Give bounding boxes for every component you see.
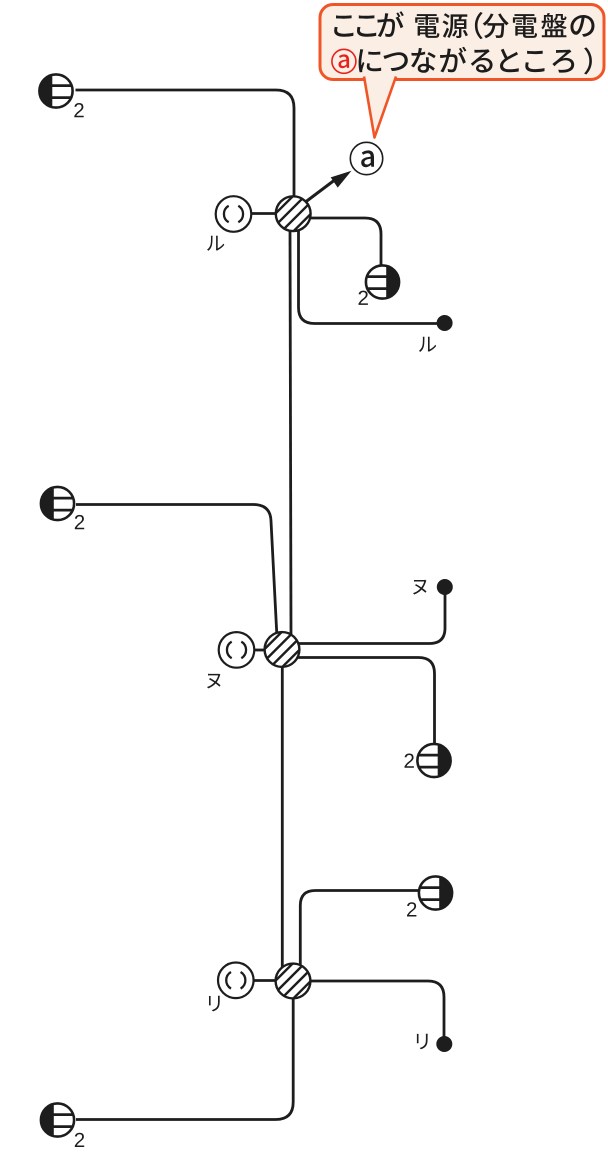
callout text line 1: ここが電源（分電盤の bbox=[334, 11, 594, 39]
switch dot RU bbox=[437, 315, 453, 331]
label RI at fixture bbox=[209, 996, 220, 1012]
wire: lamp RI-2 to junction J3 bbox=[300, 891, 419, 968]
wire: trunk junction J2 to junction J3 bbox=[281, 665, 284, 968]
callout circled-a (red) bbox=[332, 49, 356, 73]
wire: switch RI to junction J3 bbox=[252, 979, 278, 982]
wire: trunk junction J3 down to bottom lamp bbox=[76, 996, 293, 1120]
lamp (outlet) RU-2 right of J1 with cable mark 2 bbox=[366, 265, 399, 298]
wire: top-left lamp to junction J1 bbox=[76, 90, 295, 197]
node a (power source terminal) bbox=[350, 142, 382, 174]
wire: junction J1 to lamp RU-2 bbox=[309, 218, 381, 266]
label RU at switch dot bbox=[419, 337, 436, 352]
cable label 2 (lamp RU-2) bbox=[359, 291, 368, 305]
ceiling fixture NU bbox=[219, 632, 255, 668]
wire: mid-left lamp to junction J2 bbox=[76, 505, 277, 639]
junction box J3 (hatched) bbox=[262, 950, 324, 1012]
junction box J2 (hatched) bbox=[251, 619, 313, 681]
lamp (outlet) mid-left with cable mark 2 bbox=[41, 487, 74, 520]
switch dot RI bbox=[436, 1036, 452, 1052]
switch dot NU bbox=[437, 579, 453, 595]
cable label 2 (mid-left lamp) bbox=[75, 515, 84, 529]
ceiling fixture RU bbox=[216, 196, 252, 232]
arrow from junction J1 to node a bbox=[302, 171, 352, 205]
callout tail pointer bbox=[364, 77, 396, 138]
cable label 2 (bottom-left lamp) bbox=[75, 1133, 84, 1147]
wire: switch RU to junction J1 bbox=[251, 212, 277, 215]
junction box J1 (hatched) bbox=[262, 183, 324, 245]
wire: junction J2 to dot NU bbox=[297, 594, 445, 644]
callout box (power source note) bbox=[320, 5, 604, 80]
lamp (outlet) NU-2 below J2 with cable mark 2 bbox=[417, 744, 450, 777]
label NU at fixture bbox=[207, 674, 221, 689]
wire: switch NU to junction J2 bbox=[251, 649, 266, 652]
label RI at switch dot bbox=[417, 1034, 428, 1050]
label RU at fixture bbox=[207, 236, 224, 251]
label NU at switch dot bbox=[413, 580, 427, 595]
wire: junction J3 to dot RI bbox=[309, 981, 444, 1037]
lamp (outlet) top-left with cable mark 2 bbox=[39, 74, 72, 107]
callout text line 2: につながるところ） bbox=[359, 47, 592, 75]
cable label 2 (top-left lamp) bbox=[74, 103, 83, 117]
wire: junction J1 down-right to dot RU bbox=[299, 227, 439, 324]
cable label 2 (lamp NU-2) bbox=[405, 754, 414, 768]
wire: trunk junction J1 to junction J2 bbox=[290, 228, 291, 636]
wire: junction J2 to lamp NU-2 bbox=[297, 658, 435, 746]
lamp (outlet) bottom-left with cable mark 2 bbox=[41, 1103, 74, 1136]
lamp (outlet) RI-2 above J3 with cable mark 2 bbox=[419, 876, 452, 909]
ceiling fixture RI bbox=[218, 963, 254, 999]
cable label 2 (lamp RI-2) bbox=[407, 902, 416, 916]
